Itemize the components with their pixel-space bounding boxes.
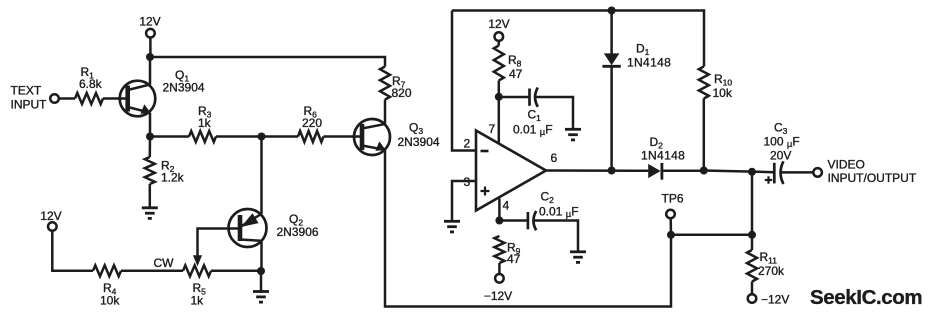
resistor R10: [699, 67, 709, 99]
terminal -12V R11: [748, 294, 757, 303]
wire R9 to -12V: [498, 263, 501, 274]
arrow wiper R5: [193, 255, 202, 266]
svg-text:0.01 µF: 0.01 µF: [539, 205, 579, 220]
svg-text:R11: R11: [760, 250, 778, 265]
svg-text:TEXT: TEXT: [11, 84, 42, 98]
label plus input: [481, 187, 490, 196]
wire Q3 emitter down and along bottom to TP6 node: [385, 150, 671, 307]
terminal TP6: [666, 210, 675, 219]
svg-text:1N4148: 1N4148: [641, 149, 685, 163]
terminal 12V op-amp: [495, 32, 504, 41]
potentiometer R5: [183, 265, 211, 276]
node R11 branch: [748, 168, 756, 176]
svg-text:TP6: TP6: [662, 192, 684, 206]
wire R5 to collector node: [211, 270, 261, 273]
resistor R6: [298, 131, 324, 142]
svg-text:VIDEO: VIDEO: [828, 158, 865, 172]
wire C3 to video terminal: [781, 171, 814, 174]
svg-text:R10: R10: [714, 72, 732, 87]
svg-text:2N3904: 2N3904: [398, 135, 440, 149]
terminal -12V op-amp: [495, 274, 504, 283]
svg-text:12V: 12V: [139, 15, 160, 29]
svg-text:100 µF: 100 µF: [764, 135, 800, 150]
wire R6 to Q3 base: [324, 135, 363, 138]
node pin4 C2 R9: [495, 217, 503, 225]
svg-text:C1: C1: [528, 108, 542, 123]
svg-text:7: 7: [489, 122, 496, 136]
svg-text:C2: C2: [541, 190, 555, 205]
wire input terminal to R1: [59, 97, 75, 100]
svg-text:2N3904: 2N3904: [163, 81, 205, 95]
node Q1 collector junction: [146, 53, 154, 61]
svg-text:−12V: −12V: [761, 293, 789, 307]
capacitor C2: [528, 211, 536, 230]
terminal TEXT INPUT: [50, 94, 59, 103]
resistor R3: [189, 131, 216, 142]
svg-text:20V: 20V: [770, 149, 791, 163]
wire C2 to ground: [534, 221, 578, 251]
diode D2: [648, 163, 703, 180]
svg-text:6.8k: 6.8k: [79, 77, 103, 91]
ground pin3: [444, 221, 460, 232]
svg-text:12V: 12V: [488, 17, 509, 31]
ground C1: [565, 129, 581, 140]
resistor R8: [494, 46, 504, 81]
wire R10 to output node: [703, 99, 706, 171]
svg-text:2N3906: 2N3906: [277, 225, 319, 239]
svg-text:10k: 10k: [713, 86, 733, 100]
wire 12V to R8: [498, 41, 501, 46]
wire node to R6: [262, 135, 299, 138]
svg-text:Q3: Q3: [409, 121, 423, 136]
transistor Q2: [229, 209, 267, 247]
svg-text:1k: 1k: [191, 294, 205, 308]
wire Q1 emitter down: [149, 113, 152, 137]
wire top feedback rail: [452, 11, 704, 67]
resistor R1: [75, 93, 103, 104]
wire emitter node to R3: [150, 135, 189, 138]
node TP6 junction: [667, 231, 675, 239]
svg-text:6: 6: [551, 151, 558, 165]
svg-text:270k: 270k: [758, 264, 785, 278]
ground Q2 collector: [253, 271, 269, 302]
resistor R2: [145, 137, 155, 207]
node R5 Q2 collector junction: [257, 267, 265, 275]
svg-text:0.01 µF: 0.01 µF: [513, 123, 553, 138]
terminal 12V top-left: [146, 29, 155, 38]
wire R11 to -12V: [751, 282, 754, 295]
resistor R9: [494, 236, 504, 263]
wire pin3 to ground: [452, 181, 476, 220]
label minus input: [481, 150, 489, 153]
terminal VIDEO: [813, 168, 822, 177]
transistor Q1: [120, 81, 156, 117]
wire node to C2: [499, 219, 528, 222]
svg-text:220: 220: [302, 116, 322, 130]
wire Q2 collector down: [260, 241, 263, 271]
svg-text:47: 47: [507, 252, 521, 266]
svg-text:10k: 10k: [100, 294, 120, 308]
wire pin4 down: [498, 199, 501, 221]
node R8 C1 pin7: [495, 93, 503, 101]
node R11 top: [748, 231, 756, 239]
capacitor C3: [774, 161, 783, 184]
resistor R4: [93, 265, 121, 276]
svg-text:INPUT: INPUT: [11, 98, 48, 112]
node Q1 emitter junction: [146, 133, 154, 141]
wire R1 to Q1 base: [103, 97, 128, 100]
wire node down to Q2 emitter: [260, 137, 263, 214]
capacitor C1: [530, 88, 538, 107]
svg-text:CW: CW: [154, 256, 175, 270]
wire C1 to ground: [535, 97, 573, 128]
wire 12V to R4: [52, 231, 93, 271]
svg-text:R8: R8: [508, 53, 522, 68]
wire 12V terminal to collector node: [149, 38, 152, 58]
svg-text:INPUT/OUTPUT: INPUT/OUTPUT: [828, 171, 917, 185]
svg-text:−12V: −12V: [484, 289, 512, 303]
label plus C3: [765, 176, 772, 183]
svg-text:C3: C3: [774, 121, 788, 136]
svg-text:820: 820: [392, 86, 412, 100]
svg-text:2: 2: [464, 137, 471, 151]
node R3 R6 Q2 junction: [258, 133, 266, 141]
wire node to C1: [499, 96, 530, 99]
svg-text:1N4148: 1N4148: [627, 56, 671, 70]
svg-text:4: 4: [503, 199, 510, 213]
resistor R11: [747, 250, 757, 282]
transistor Q3: [354, 119, 390, 155]
wire R11 top: [751, 235, 754, 250]
wire R11 branch down: [751, 172, 754, 235]
svg-text:1k: 1k: [198, 116, 212, 130]
wire Q2 base to wiper: [198, 229, 241, 256]
wire pin2 feedback vertical: [452, 11, 476, 151]
wire R8 to pin7 node: [498, 81, 501, 97]
svg-text:47: 47: [509, 67, 523, 81]
node R10 output: [700, 167, 708, 175]
wire TP6 stem: [669, 218, 672, 235]
svg-text:D1: D1: [636, 42, 650, 57]
wire op-amp output to D2: [546, 169, 648, 172]
wire R3 to node: [216, 135, 262, 138]
wire R4 to R5: [121, 270, 183, 273]
op-amp U1: [476, 131, 546, 211]
wire Q1 collector up: [149, 57, 152, 85]
node D1 top: [608, 7, 616, 15]
node D1 bottom output: [608, 167, 616, 175]
resistor R7: [380, 67, 390, 100]
wire output node to C3: [704, 171, 775, 173]
svg-text:1.2k: 1.2k: [161, 171, 185, 185]
svg-text:SeekIC.com: SeekIC.com: [810, 286, 922, 309]
wire collector rail to R7: [150, 57, 385, 67]
wire pin7: [498, 97, 501, 144]
diode D1: [602, 11, 620, 171]
wire TP6 node to R11 node: [671, 234, 752, 237]
terminal 12V bottom-left: [48, 222, 57, 231]
wire R7 to Q3 collector: [384, 100, 387, 125]
svg-text:12V: 12V: [40, 209, 61, 223]
ground R2: [142, 208, 158, 219]
ground C2: [570, 252, 586, 263]
